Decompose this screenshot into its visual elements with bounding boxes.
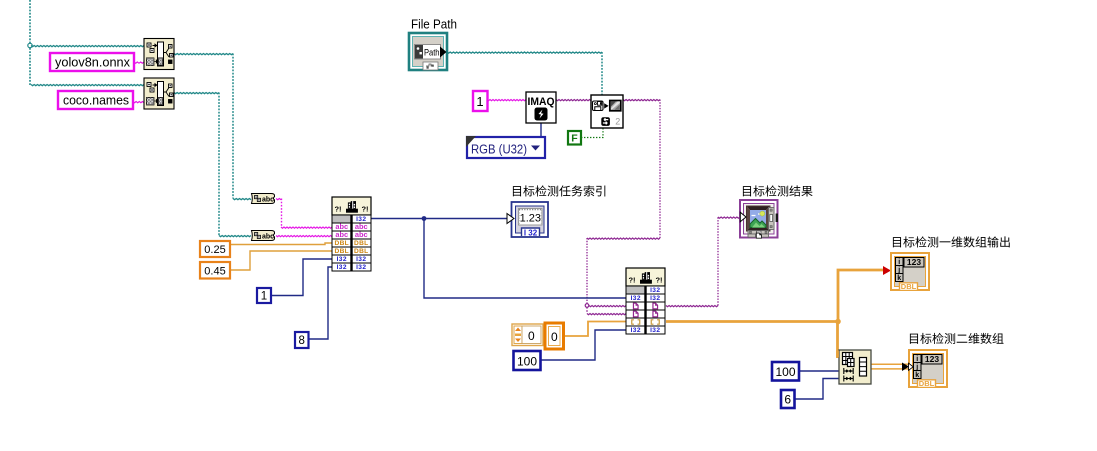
wire path from Build Path 1 xyxy=(174,54,233,55)
svg-text:i: i xyxy=(916,356,918,363)
label File Path xyxy=(411,17,457,32)
string constant yolov8n.onnx xyxy=(50,53,134,71)
wire path into Path-to-String 2 xyxy=(219,236,251,237)
Reshape Array node xyxy=(839,350,871,384)
wire image down right side xyxy=(659,100,661,239)
label 目标检测任务索引 xyxy=(513,185,605,196)
wire image into result indicator xyxy=(718,217,740,218)
wire path trunk vertical xyxy=(29,0,31,85)
svg-text:6: 6 xyxy=(784,393,791,407)
svg-text:DBL: DBL xyxy=(901,282,917,291)
wire path down to Path-to-String 1 xyxy=(232,54,234,199)
svg-text:100: 100 xyxy=(517,355,537,369)
wire string into CLN1 row2 xyxy=(281,227,332,228)
wire path down to read-file node xyxy=(601,52,603,95)
wire path to Build Path 2 xyxy=(31,85,144,86)
svg-text:I32: I32 xyxy=(356,264,366,271)
label 目标检测结果 xyxy=(743,185,813,196)
coercion dot red arrow at 1D indicator xyxy=(883,266,891,275)
wire image up to indicator xyxy=(717,217,719,306)
string constant coco.names xyxy=(58,91,133,109)
wire image leftward xyxy=(587,238,660,239)
svg-text:k: k xyxy=(915,372,919,379)
svg-text:yolov8n.onnx: yolov8n.onnx xyxy=(55,55,130,70)
label 目标检测一维数组输出 xyxy=(893,236,1010,247)
svg-text:abc: abc xyxy=(355,230,368,239)
wire string yolov8n.onnx xyxy=(134,62,144,63)
array indicator 目标检测二维数组 xyxy=(909,350,948,388)
wire image into CLN2 src xyxy=(589,306,626,307)
Call Library Function node 1 (model init) xyxy=(332,197,371,271)
svg-text:k: k xyxy=(897,275,901,282)
wire image branch down xyxy=(586,307,588,314)
svg-text:1: 1 xyxy=(261,291,267,303)
wire path to Build Path 1 xyxy=(31,46,144,47)
svg-text:?!: ?! xyxy=(628,276,635,285)
wire string coco.names xyxy=(133,102,144,103)
svg-text:2: 2 xyxy=(615,117,620,127)
enum constant RGB (U32) xyxy=(466,136,545,158)
wire I32 const 100 to CLN2 xyxy=(540,330,626,360)
svg-text:I32: I32 xyxy=(650,327,660,334)
wire image IMAQ Create to read-file xyxy=(556,100,591,101)
svg-text:8: 8 xyxy=(298,335,304,347)
Path To String node 2 xyxy=(252,231,275,241)
svg-text:j: j xyxy=(897,267,900,274)
svg-text:DBL: DBL xyxy=(335,240,349,247)
svg-text:I32: I32 xyxy=(631,295,641,302)
svg-text:I32: I32 xyxy=(650,295,660,302)
svg-text:abc: abc xyxy=(335,230,348,239)
DBL constant 0 xyxy=(545,323,564,349)
svg-text:RGB (U32): RGB (U32) xyxy=(471,143,527,157)
image indicator 目标检测结果 xyxy=(740,200,778,238)
wire DBL 0.45 to CLN1 xyxy=(230,251,332,270)
svg-text:I32: I32 xyxy=(631,327,641,334)
wire I32 const 100 to reshape xyxy=(799,370,839,372)
wire I32 down to CLN2 xyxy=(424,219,626,299)
wire boolean F to read-file xyxy=(581,128,603,138)
boolean constant F xyxy=(568,131,581,145)
svg-text:1.23: 1.23 xyxy=(520,213,541,225)
Call Library Function node 2 (run detection) xyxy=(626,268,665,334)
svg-text:I32: I32 xyxy=(337,256,347,263)
wire string Path-to-String 1 out xyxy=(276,199,281,200)
wire DBL-array down to reshape xyxy=(836,322,839,359)
junction DBL array xyxy=(835,319,841,325)
svg-text:I32: I32 xyxy=(337,264,347,271)
svg-text:abc: abc xyxy=(262,197,274,204)
string constant 1 xyxy=(473,91,488,111)
svg-text:DBL: DBL xyxy=(354,240,368,247)
Build Path node 2 xyxy=(144,78,174,109)
svg-text:DBL: DBL xyxy=(335,248,349,255)
svg-text:123: 123 xyxy=(907,257,921,267)
svg-text:123: 123 xyxy=(925,354,939,364)
Path To String node 1 xyxy=(252,194,275,204)
DBL constant 0.25 xyxy=(200,241,230,257)
wire image into CLN2 dst xyxy=(587,314,626,315)
svg-text:100: 100 xyxy=(775,365,795,379)
svg-text:I 32: I 32 xyxy=(524,229,538,238)
svg-text:File Path: File Path xyxy=(411,17,457,32)
svg-text:Path: Path xyxy=(424,48,440,58)
wire string Path-to-String 2 out xyxy=(276,236,332,237)
wire I32 RGB enum to IMAQ Create xyxy=(540,123,542,137)
numeric indicator 目标检测任务索引 xyxy=(507,202,548,238)
svg-text:0: 0 xyxy=(528,329,535,343)
wire string 1 to IMAQ Create xyxy=(487,100,526,101)
File Path control xyxy=(409,33,447,70)
DBL constant 0 (spinner) xyxy=(512,324,543,346)
wire image down to CLN2 xyxy=(586,238,588,306)
array indicator 目标检测一维数组输出 xyxy=(891,253,929,291)
wire image CLN2 out xyxy=(666,306,718,307)
svg-text:DBL: DBL xyxy=(919,379,935,388)
wire path from File Path control xyxy=(447,52,602,53)
junction path trunk xyxy=(28,43,32,47)
I32 constant 8 xyxy=(295,332,309,348)
wire DBL 0.25 to CLN1 xyxy=(230,243,332,245)
IMAQ Create node xyxy=(526,92,556,123)
Build Path node 1 xyxy=(144,39,174,70)
svg-text:F: F xyxy=(571,133,578,145)
wire path into Path-to-String 1 xyxy=(233,199,251,200)
junction I32 wire xyxy=(422,216,427,221)
svg-text:j: j xyxy=(915,364,918,371)
I32 constant 100 (to reshape) xyxy=(772,362,799,381)
I32 constant 1 xyxy=(257,288,271,303)
label 目标检测二维数组 xyxy=(910,333,1004,344)
svg-text:0.25: 0.25 xyxy=(204,244,225,256)
svg-text:?!: ?! xyxy=(334,205,341,214)
wire path down to Path-to-String 2 xyxy=(218,93,220,236)
I32 constant 6 xyxy=(781,390,795,408)
svg-text:coco.names: coco.names xyxy=(63,93,129,108)
wire DBL-2D-array reshape to 2D indicator xyxy=(871,363,909,372)
junction image wire xyxy=(585,304,589,308)
I32 constant 100 (to CLN2) xyxy=(514,351,541,370)
wire I32 const 6 to reshape xyxy=(794,379,839,400)
DBL constant 0.45 xyxy=(200,262,230,279)
svg-text:I32: I32 xyxy=(356,256,366,263)
wire I32 const 8 to CLN1 xyxy=(308,267,332,339)
svg-text:1: 1 xyxy=(476,94,483,109)
svg-text:?!: ?! xyxy=(655,276,662,285)
wire image read-file out xyxy=(623,100,660,101)
wire I32 CLN1 out xyxy=(371,218,511,220)
svg-text:?!: ?! xyxy=(361,205,368,214)
wire DBL-array up to 1D indicator xyxy=(838,270,886,322)
wire path from Build Path 2 xyxy=(174,93,219,94)
wire DBL-array CLN2 out xyxy=(666,320,838,323)
IMAQ ReadFile node xyxy=(591,95,623,128)
svg-text:0: 0 xyxy=(551,330,558,344)
svg-text:0.45: 0.45 xyxy=(204,266,225,278)
svg-text:abc: abc xyxy=(262,234,274,241)
wire DBL 0 to CLN2 xyxy=(563,322,626,337)
wire string vertical xyxy=(281,199,283,228)
wire DBL-array stub into reshape xyxy=(836,351,839,358)
svg-text:DBL: DBL xyxy=(354,248,368,255)
wire I32 const 1 to CLN1 xyxy=(271,259,332,296)
svg-text:I32: I32 xyxy=(650,287,660,294)
svg-text:i: i xyxy=(898,259,900,266)
svg-text:IMAQ: IMAQ xyxy=(528,96,555,108)
